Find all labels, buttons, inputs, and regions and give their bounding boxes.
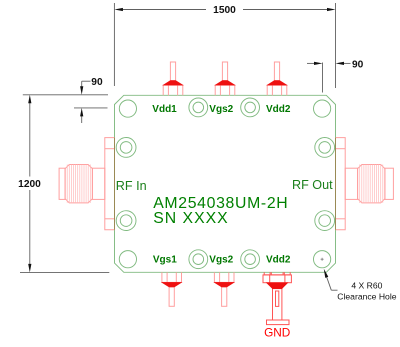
dimension 90 top-right [307,63,351,93]
screw hole right edge upper [315,138,335,158]
svg-text:Vgs2: Vgs2 [209,255,233,266]
corner hole bottom-left [119,251,136,268]
pin Vgs2 bottom [214,272,234,306]
label serial number SN XXXX [153,210,228,227]
screw hole right edge lower [315,211,335,231]
label Vdd2 bottom [266,255,291,266]
label RF In [116,179,147,193]
pin Vgs2 top [215,62,235,95]
svg-text:4 X R60: 4 X R60 [351,281,382,291]
pin GND bottom (ground stud) [263,272,291,324]
screw hole top edge right [241,98,260,117]
body outline (module housing 1500x1200) [115,95,336,272]
dimension 90 top-left [23,81,108,123]
pin Vdd1 top [163,62,183,95]
connector J1 body left (RF In SMA) [59,165,105,203]
connector J2 body right (RF Out SMA) [345,165,393,203]
svg-text:Vdd2: Vdd2 [266,255,291,266]
screw hole bottom edge left [189,250,208,269]
dimension 1500 top [114,3,335,88]
label part number AM254038UM-2H [153,195,288,212]
svg-text:90: 90 [91,77,103,88]
pin Vgs1 bottom [162,272,182,306]
corner hole top-left [119,100,136,117]
svg-text:Clearance Hole: Clearance Hole [337,291,396,301]
note leader 4 X R60 clearance hole [324,269,397,302]
connector J2 flange right [336,138,346,230]
svg-text:Vgs1: Vgs1 [153,255,177,266]
corner hole bottom-right [314,251,331,268]
connector J1 flange left [105,138,115,230]
svg-text:1500: 1500 [213,5,236,16]
svg-text:SN XXXX: SN XXXX [153,210,228,227]
svg-text:1200: 1200 [18,179,41,190]
screw hole left edge lower [116,211,136,231]
label Vdd1 [152,104,177,115]
screw hole left edge upper [116,138,136,158]
label Vgs1 bottom [153,255,177,266]
svg-text:Vdd1: Vdd1 [152,104,177,115]
svg-text:90: 90 [352,60,364,71]
label RF Out [292,178,333,192]
svg-text:Vgs2: Vgs2 [209,104,233,115]
label GND [264,325,290,339]
svg-text:RF Out: RF Out [292,178,333,192]
svg-text:GND: GND [264,325,290,339]
pin Vdd2 top [267,62,287,95]
label Vgs2 bottom [209,255,233,266]
svg-text:Vdd2: Vdd2 [266,104,291,115]
screw hole bottom edge right [241,250,260,269]
label Vdd2 top [266,104,291,115]
label Vgs2 top [209,104,233,115]
screw hole top edge left [189,98,208,117]
svg-text:RF In: RF In [116,179,147,193]
center mark bottom-right hole [321,258,324,261]
corner hole top-right [314,100,331,117]
dimension 1200 left [20,103,109,272]
